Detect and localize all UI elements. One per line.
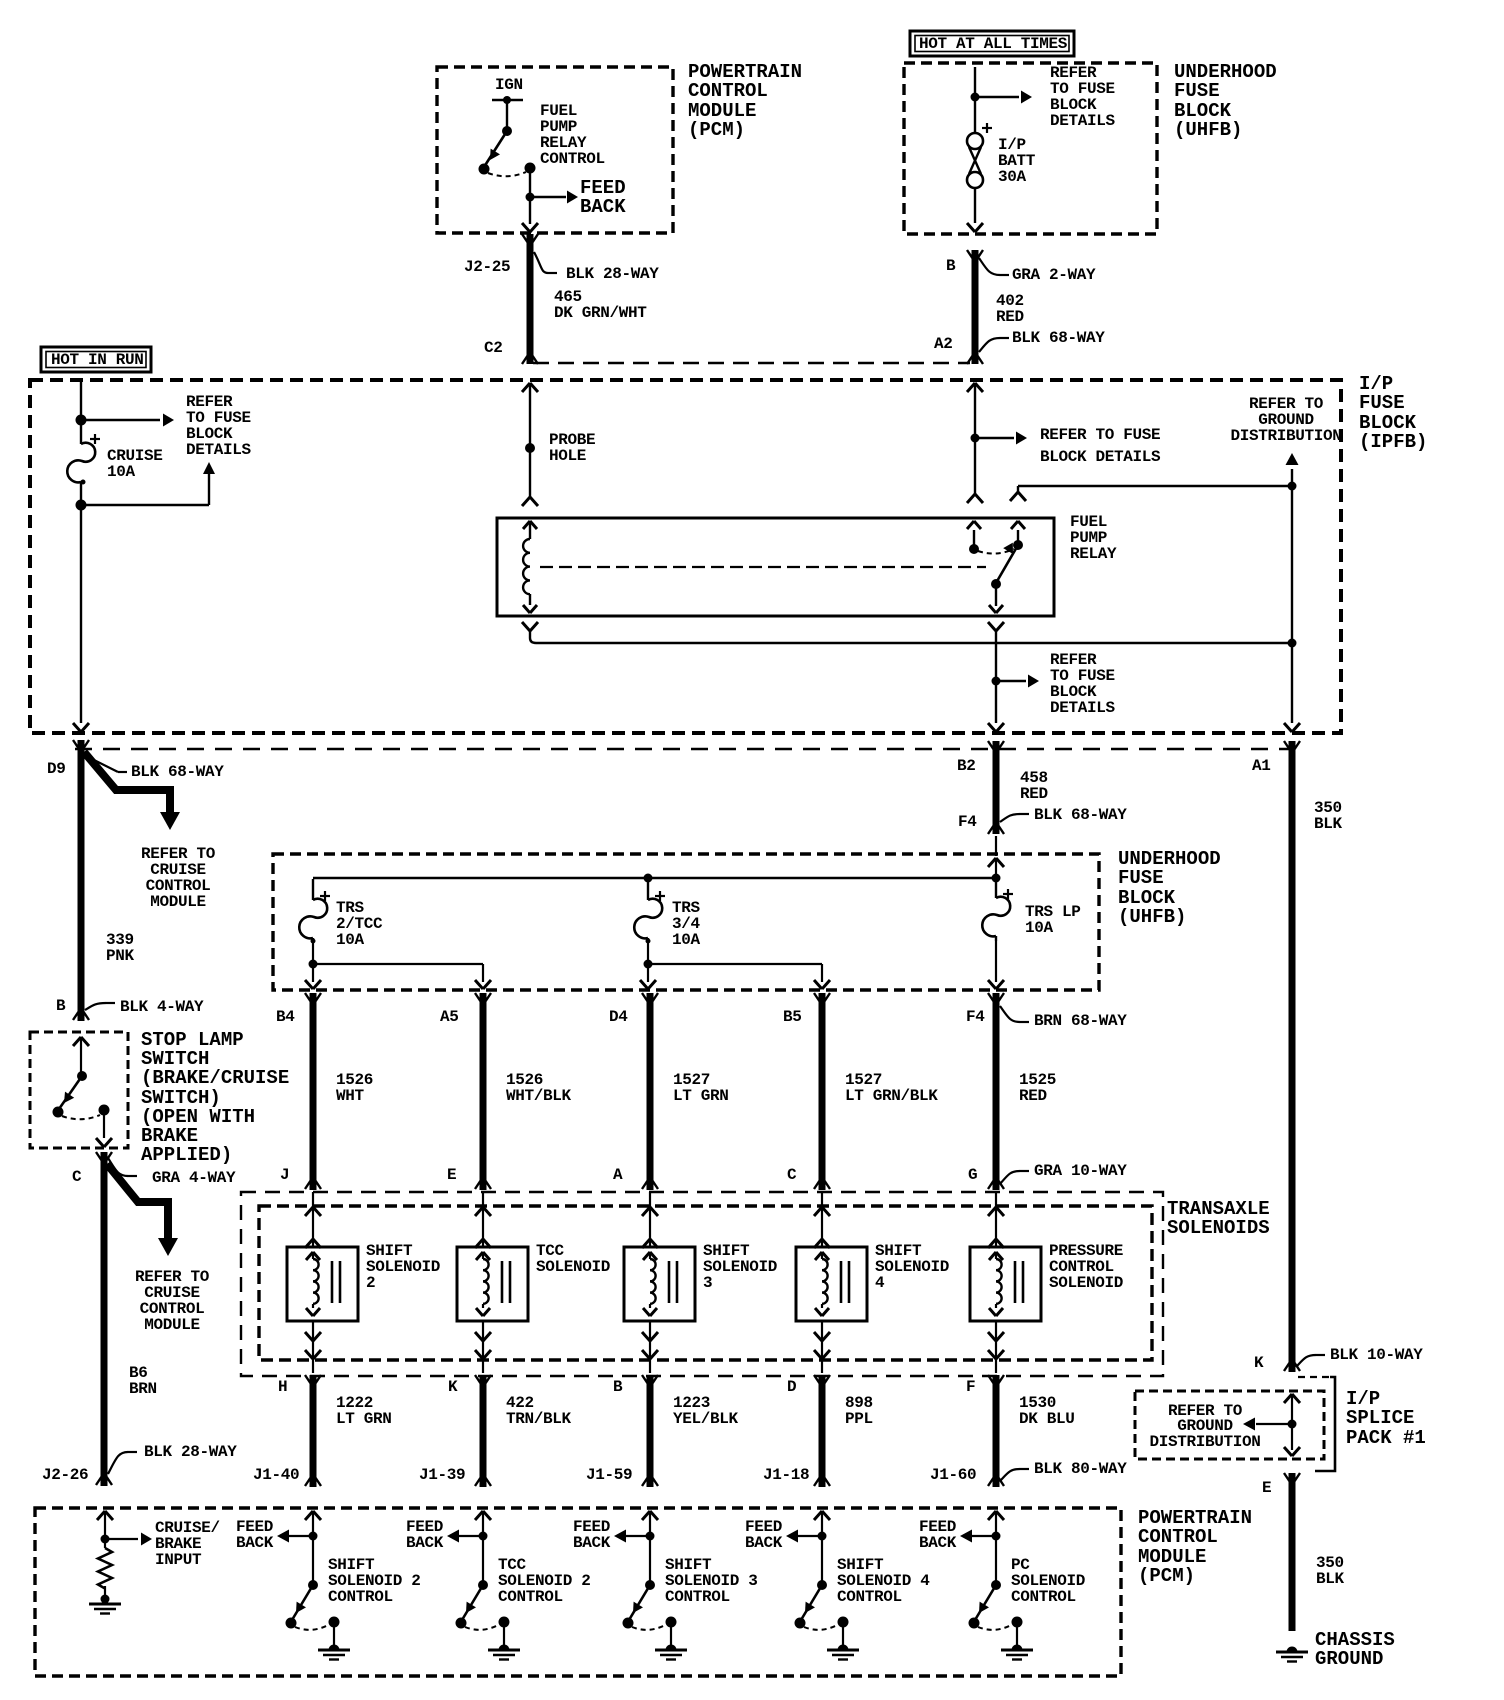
svg-text:BACK: BACK (573, 1534, 611, 1552)
solenoid SHIFT SOLENOID 3 box (624, 1247, 695, 1321)
svg-text:GROUND: GROUND (1315, 1648, 1383, 1670)
pin label J1-39 (419, 1466, 465, 1484)
stop lamp switch (53, 1071, 110, 1119)
svg-text:IGN: IGN (495, 76, 523, 94)
node IGN terminal bar (492, 96, 523, 104)
pin label F4 (UHFB) (958, 813, 977, 831)
relay coil lead arrow (523, 521, 537, 539)
solenoid SHIFT SOLENOID 3 leads out (642, 1321, 658, 1373)
ground (cruise/brake input) (89, 1586, 121, 1614)
svg-text:J1-60: J1-60 (930, 1466, 976, 1484)
svg-text:BLK 28-WAY: BLK 28-WAY (566, 265, 659, 283)
ground (SHIFT SOLENOID 2) (318, 1627, 350, 1660)
svg-text:INPUT: INPUT (155, 1551, 202, 1569)
node TRS 2/TCC output (309, 941, 318, 969)
label STOP LAMP SWITCH (141, 1029, 289, 1166)
svg-text:J1-40: J1-40 (253, 1466, 299, 1484)
svg-text:BLK 68-WAY: BLK 68-WAY (1012, 329, 1105, 347)
module box: I/P Fuse Block (IPFB) (30, 380, 1341, 733)
relay contact input lead (1011, 521, 1025, 545)
wire TRS 2/TCC to B4 (305, 964, 321, 989)
solenoid TCC SOLENOID leads out (475, 1321, 491, 1373)
relay switch throw node (978, 540, 1023, 554)
label SHIFT SOLENOID 2 CONTROL (328, 1556, 421, 1606)
svg-text:WHT/BLK: WHT/BLK (506, 1087, 572, 1105)
splice pack bracket (1315, 1377, 1335, 1471)
wire label 1526 WHT (336, 1071, 373, 1105)
node A2 branch junction (971, 434, 980, 443)
svg-text:MODULE: MODULE (150, 893, 206, 911)
module box: Powertrain Control Module (PCM) bottom (35, 1508, 1121, 1676)
svg-text:J1-59: J1-59 (586, 1466, 632, 1484)
label FEED BACK (SHIFT SOLENOID 4) (745, 1518, 783, 1552)
svg-text:(UHFB): (UHFB) (1118, 906, 1186, 928)
wire 1525 RED (row1) (988, 993, 1004, 1190)
label PRESSURE CONTROL SOLENOID (1049, 1242, 1123, 1292)
pin label J (solenoid) (280, 1166, 289, 1184)
svg-text:(IPFB): (IPFB) (1359, 431, 1427, 453)
pin label B (stop lamp) (56, 997, 66, 1015)
svg-text:LT GRN/BLK: LT GRN/BLK (845, 1087, 938, 1105)
splice wire (1284, 1377, 1330, 1456)
svg-text:GRA 4-WAY: GRA 4-WAY (152, 1169, 236, 1187)
wire 898 PPL (row2) (814, 1375, 830, 1487)
label SHIFT SOLENOID 4 CONTROL (837, 1556, 930, 1606)
node bus TRS LP (992, 874, 1001, 883)
wire 350 BLK (A1 to K) (1284, 741, 1300, 1372)
svg-text:GRA 2-WAY: GRA 2-WAY (1012, 266, 1096, 284)
wire label 422 TRN/BLK (506, 1394, 572, 1428)
svg-text:A2: A2 (934, 335, 953, 353)
label REFER TO CRUISE CONTROL MODULE (lower) (135, 1268, 210, 1334)
solenoid SHIFT SOLENOID 3 leads in (642, 1192, 658, 1248)
solenoid SHIFT SOLENOID 2 leads in (305, 1192, 321, 1248)
wire 458 RED (B2 to F4) (988, 741, 1004, 834)
circuit breaker I/P BATT 30A (967, 123, 992, 188)
connector label BLK 4-WAY (85, 998, 204, 1016)
node bus TRS 3/4 (644, 874, 653, 883)
svg-text:APPLIED): APPLIED) (141, 1144, 232, 1166)
solenoid SHIFT SOLENOID 2 core bars (332, 1261, 340, 1303)
label FEED BACK (SHIFT SOLENOID 2) (236, 1518, 274, 1552)
solenoid SHIFT SOLENOID 3 core bars (669, 1261, 677, 1303)
relay internal dashed link (540, 566, 986, 568)
svg-text:B: B (56, 997, 66, 1015)
wire battery feed into fuse (974, 67, 976, 133)
svg-text:BRN 68-WAY: BRN 68-WAY (1034, 1012, 1127, 1030)
svg-text:(UHFB): (UHFB) (1174, 119, 1242, 141)
wire label 898 PPL (845, 1394, 873, 1428)
svg-text:B5: B5 (783, 1008, 802, 1026)
svg-text:RED: RED (1019, 1087, 1047, 1105)
node feedback junction (526, 193, 535, 202)
svg-text:HOT AT ALL TIMES: HOT AT ALL TIMES (919, 35, 1068, 53)
svg-text:CONTROL: CONTROL (1011, 1588, 1076, 1606)
svg-text:BLK 80-WAY: BLK 80-WAY (1034, 1460, 1127, 1478)
pin label B5 (783, 1008, 802, 1026)
svg-text:MODULE: MODULE (144, 1316, 200, 1334)
switch TCC SOLENOID 2 control (456, 1580, 489, 1629)
arrow refer to fuse block details (below relay) (996, 675, 1039, 688)
wire label 350 BLK (upper) (1314, 799, 1343, 833)
label PC SOLENOID CONTROL (1011, 1556, 1085, 1606)
wire TRS LP to F4 (988, 941, 1004, 989)
svg-text:LT GRN: LT GRN (673, 1087, 729, 1105)
pin label A2 (934, 335, 953, 353)
svg-text:G: G (968, 1166, 977, 1184)
chassis ground symbol (1276, 1647, 1308, 1662)
svg-text:10A: 10A (1025, 919, 1054, 937)
wire 1222 LT GRN (row2) (305, 1375, 321, 1487)
svg-text:10A: 10A (672, 931, 701, 949)
fuse CRUISE 10A (67, 421, 100, 505)
switch SHIFT SOLENOID 2 control (286, 1580, 319, 1629)
svg-text:PPL: PPL (845, 1410, 873, 1428)
driver lead in (SHIFT SOLENOID 3) (642, 1511, 658, 1585)
svg-text:CONTROL: CONTROL (837, 1588, 902, 1606)
label REFER TO CRUISE CONTROL MODULE (upper) (141, 845, 216, 911)
svg-text:30A: 30A (998, 168, 1027, 186)
label CHASSIS GROUND (1315, 1629, 1395, 1670)
component boundary: transaxle solenoids outer (241, 1192, 1163, 1376)
node feedback (TCC SOLENOID 2) (479, 1532, 488, 1541)
svg-text:BLK 68-WAY: BLK 68-WAY (1034, 806, 1127, 824)
wire label 465 DK GRN/WHT (554, 288, 647, 322)
pin label E (1262, 1479, 1271, 1497)
pin label J2-26 (42, 1466, 88, 1484)
wire relay output to B2 (988, 681, 1004, 732)
svg-text:DETAILS: DETAILS (1050, 112, 1116, 130)
svg-text:B: B (613, 1378, 623, 1396)
pin label B (row2) (613, 1378, 623, 1396)
node TRS 3/4 output (644, 941, 653, 969)
wire relay input riser (1010, 486, 1292, 501)
svg-text:C2: C2 (484, 339, 503, 357)
branch to cruise control module (C) (107, 1164, 178, 1256)
ground (SHIFT SOLENOID 3) (655, 1627, 687, 1660)
svg-text:PNK: PNK (106, 947, 135, 965)
svg-text:WHT: WHT (336, 1087, 365, 1105)
wire breaker to pin B (967, 188, 983, 232)
svg-text:SOLENOID: SOLENOID (1049, 1274, 1123, 1292)
pin label F (row2) (966, 1378, 975, 1396)
svg-text:(PCM): (PCM) (688, 119, 745, 141)
arrow FEED BACK (SHIFT SOLENOID 3) (614, 1530, 650, 1543)
svg-text:B: B (946, 257, 956, 275)
pin label J1-60 (930, 1466, 976, 1484)
label PROBE HOLE (549, 431, 595, 465)
pin label K (1254, 1354, 1264, 1372)
svg-text:DISTRIBUTION: DISTRIBUTION (1149, 1433, 1260, 1451)
connector chevron above relay (coil lead) (522, 497, 538, 506)
wire IGN to switch (506, 100, 508, 131)
node fuse feed junction (971, 93, 980, 102)
solenoid PRESSURE CONTROL SOLENOID box (970, 1247, 1041, 1321)
svg-text:DK GRN/WHT: DK GRN/WHT (554, 304, 647, 322)
arrow FEED BACK (SHIFT SOLENOID 2) (277, 1530, 313, 1543)
wire label 339 PNK (106, 931, 135, 965)
module box: Powertrain Control Module (PCM) top (437, 67, 673, 233)
connector label BLK 68-WAY (F4) (1000, 806, 1127, 824)
wire 339 PNK (D9 to B) (73, 740, 89, 1021)
solenoid PRESSURE CONTROL SOLENOID leads out (988, 1321, 1004, 1373)
driver lead in (SHIFT SOLENOID 2) (305, 1511, 321, 1585)
solenoid TCC SOLENOID box (457, 1247, 528, 1321)
svg-text:DK BLU: DK BLU (1019, 1410, 1075, 1428)
pin label D9 (47, 760, 66, 778)
pin label J1-18 (763, 1466, 809, 1484)
connector label BLK 10-WAY (1296, 1346, 1423, 1367)
pin label B2 (957, 757, 976, 775)
pin label D (row2) (787, 1378, 796, 1396)
fuse TRS 2/TCC 10A (299, 879, 330, 944)
svg-text:J1-39: J1-39 (419, 1466, 465, 1484)
node cruise fuse junction (76, 415, 87, 426)
label I/P BATT 30A (998, 136, 1036, 186)
wire 350 BLK (E to ground) (1284, 1473, 1300, 1631)
fuse bus (313, 877, 996, 879)
wire cruise output down (73, 505, 89, 732)
svg-text:SOLENOID: SOLENOID (536, 1258, 610, 1276)
svg-text:CONTROL: CONTROL (540, 150, 605, 168)
stop lamp switch input (73, 1037, 89, 1072)
wire B6 BRN (C to J2-26) (96, 1152, 112, 1486)
label POWERTRAIN CONTROL MODULE (PCM) (688, 61, 802, 141)
switch PC SOLENOID control (969, 1580, 1002, 1629)
solenoid TCC SOLENOID coil (476, 1252, 490, 1316)
node relay contact fixed (969, 544, 979, 554)
svg-text:REFER TO FUSE: REFER TO FUSE (1040, 426, 1160, 444)
arrow to FEED BACK (530, 191, 578, 204)
svg-text:BLK 28-WAY: BLK 28-WAY (144, 1443, 237, 1461)
connector label BLK 80-WAY (1000, 1460, 1127, 1481)
switch throw (PC SOLENOID) (978, 1617, 1023, 1630)
solenoid SHIFT SOLENOID 3 coil (643, 1252, 657, 1316)
svg-text:10A: 10A (107, 463, 136, 481)
wire 1223 YEL/BLK (row2) (642, 1375, 658, 1487)
svg-text:LT GRN: LT GRN (336, 1410, 392, 1428)
branch to cruise control module (D9) (84, 752, 180, 830)
svg-text:HOT IN RUN: HOT IN RUN (51, 351, 144, 369)
label SHIFT SOLENOID 4 (875, 1242, 949, 1292)
node feedback (SHIFT SOLENOID 2) (309, 1532, 318, 1541)
wire 1530 DK BLU (row2) (988, 1375, 1004, 1487)
module box: transaxle solenoids (259, 1206, 1152, 1360)
connector label GRA 2-WAY (979, 258, 1096, 284)
svg-text:A1: A1 (1252, 757, 1271, 775)
node ground distribution junction (1288, 482, 1297, 491)
label TCC SOLENOID 2 CONTROL (498, 1556, 591, 1606)
connector chevron above relay feed (967, 494, 983, 503)
svg-text:BRN: BRN (129, 1380, 157, 1398)
svg-text:10A: 10A (336, 931, 365, 949)
driver lead in (TCC SOLENOID 2) (475, 1511, 491, 1585)
wire label 1527 LT GRN (673, 1071, 729, 1105)
switch SHIFT SOLENOID 4 control (795, 1580, 828, 1629)
driver lead in (PC SOLENOID) (988, 1511, 1004, 1585)
solenoid TCC SOLENOID core bars (502, 1261, 510, 1303)
solenoid SHIFT SOLENOID 4 core bars (841, 1261, 849, 1303)
wire label 1530 DK BLU (1019, 1394, 1075, 1428)
node refer-to-fuse junction (relay output) (992, 677, 1001, 686)
svg-text:BACK: BACK (236, 1534, 274, 1552)
connector label BLK 68-WAY (D9) (86, 756, 224, 781)
wire ground distribution bus (1284, 486, 1300, 732)
label REFER TO GROUND DISTRIBUTION (IPFB) (1230, 395, 1341, 445)
ground (SHIFT SOLENOID 4) (827, 1627, 859, 1660)
svg-text:C: C (787, 1166, 797, 1184)
svg-text:B4: B4 (276, 1008, 295, 1026)
svg-text:BLK: BLK (1314, 815, 1343, 833)
label SHIFT SOLENOID 2 (366, 1242, 440, 1292)
label REFER TO FUSE BLOCK DETAILS (below relay) (1050, 651, 1116, 717)
arrow FEED BACK (PC SOLENOID) (960, 1530, 996, 1543)
wire label 1527 LT GRN/BLK (845, 1071, 938, 1105)
arrow FEED BACK (TCC SOLENOID 2) (447, 1530, 483, 1543)
svg-text:BLK: BLK (1316, 1570, 1345, 1588)
svg-text:DETAILS: DETAILS (186, 441, 252, 459)
connector label GRA 4-WAY (108, 1158, 236, 1187)
svg-text:F4: F4 (966, 1008, 985, 1026)
svg-text:CONTROL: CONTROL (498, 1588, 563, 1606)
svg-text:BACK: BACK (580, 196, 626, 218)
module box: I/P Splice Pack #1 (1135, 1391, 1324, 1459)
pin label A5 (440, 1008, 459, 1026)
label CRUISE/BRAKE INPUT (155, 1519, 220, 1569)
module box: Underhood Fuse Block top (904, 63, 1157, 234)
wire label 1223 YEL/BLK (673, 1394, 739, 1428)
svg-text:FUSE: FUSE (1359, 392, 1405, 414)
resistor cruise/brake input (98, 1548, 112, 1589)
wire 1527 LT GRN (row1) (642, 993, 658, 1190)
label TRANSAXLE SOLENOIDS (1167, 1198, 1270, 1239)
wire label 1525 RED (1019, 1071, 1056, 1105)
svg-text:J1-18: J1-18 (763, 1466, 809, 1484)
pin label B (UHFB) (946, 257, 956, 275)
fuse TRS LP 10A (982, 879, 1013, 941)
label UNDERHOOD FUSE BLOCK (UHFB) middle (1118, 848, 1221, 928)
connector chevron below relay output (988, 622, 1004, 681)
pin label A (solenoid) (613, 1166, 623, 1184)
connector label BLK 68-WAY (A2) (979, 329, 1105, 352)
solenoid SHIFT SOLENOID 2 leads out (305, 1321, 321, 1373)
label FUEL PUMP RELAY (1070, 513, 1117, 563)
module box: Stop Lamp Switch (30, 1032, 128, 1148)
wire 422 TRN/BLK (row2) (475, 1375, 491, 1487)
svg-text:FUSE: FUSE (1118, 867, 1164, 889)
pin label E (solenoid) (447, 1166, 456, 1184)
pin label J2-25 (464, 258, 510, 276)
label FUEL PUMP RELAY CONTROL (540, 102, 605, 168)
label REFER TO FUSE BLOCK DETAILS (UHFB) (1050, 64, 1116, 130)
svg-text:A: A (613, 1166, 623, 1184)
svg-text:HOLE: HOLE (549, 447, 586, 465)
label FEED BACK (580, 177, 626, 218)
svg-text:CONTROL: CONTROL (665, 1588, 730, 1606)
coil fuel pump relay (523, 539, 530, 594)
pin label D4 (609, 1008, 628, 1026)
node splice (1288, 1420, 1297, 1429)
svg-text:CONTROL: CONTROL (688, 80, 768, 102)
svg-text:(BRAKE/CRUISE: (BRAKE/CRUISE (141, 1067, 289, 1089)
node feedback (PC SOLENOID) (992, 1532, 1001, 1541)
svg-text:SOLENOID: SOLENOID (703, 1258, 777, 1276)
switch throw node (488, 163, 536, 177)
wire to PCM J2-25 pin (522, 197, 538, 232)
arrow refer to fuse block details (A2) (975, 432, 1027, 445)
connector label BLK 28-WAY (top) (534, 252, 659, 283)
connector line 68-way (75, 748, 1295, 750)
wire label B6 BRN (129, 1364, 157, 1398)
switch throw (SHIFT SOLENOID 4) (804, 1617, 849, 1630)
svg-text:BACK: BACK (745, 1534, 783, 1552)
pin label A1 (1252, 757, 1271, 775)
svg-text:4: 4 (875, 1274, 885, 1292)
svg-text:RED: RED (996, 308, 1024, 326)
relay output lead (989, 584, 1003, 613)
svg-text:FUSE: FUSE (1174, 80, 1220, 102)
svg-text:BLK 68-WAY: BLK 68-WAY (131, 763, 224, 781)
switch throw (SHIFT SOLENOID 3) (632, 1617, 677, 1630)
svg-text:SOLENOIDS: SOLENOIDS (1167, 1217, 1270, 1239)
wire label 458 RED (1020, 769, 1048, 803)
wire TRS 3/4 to D4 (640, 964, 656, 989)
arrow FEED BACK (SHIFT SOLENOID 4) (786, 1530, 822, 1543)
stop lamp switch output (96, 1110, 112, 1147)
svg-text:RELAY: RELAY (1070, 545, 1117, 563)
wire relay coil to ground distribution (536, 642, 1292, 644)
svg-text:J2-26: J2-26 (42, 1466, 88, 1484)
svg-text:BLK 10-WAY: BLK 10-WAY (1330, 1346, 1423, 1364)
solenoid SHIFT SOLENOID 2 coil (306, 1252, 320, 1316)
wire C2 into IPFB (522, 383, 538, 497)
pin label J1-59 (586, 1466, 632, 1484)
svg-text:K: K (448, 1378, 458, 1396)
solenoid SHIFT SOLENOID 4 leads in (814, 1192, 830, 1248)
arrow REFER TO GROUND DISTRIBUTION (IPFB) (1286, 453, 1299, 486)
svg-text:YEL/BLK: YEL/BLK (673, 1410, 739, 1428)
switch throw (TCC SOLENOID 2) (465, 1617, 510, 1630)
svg-text:CONTROL: CONTROL (328, 1588, 393, 1606)
label REFER TO FUSE BLOCK DETAILS (A2) (1040, 426, 1161, 466)
svg-text:J: J (280, 1166, 289, 1184)
svg-text:D4: D4 (609, 1008, 628, 1026)
wire label 402 RED (996, 292, 1024, 326)
svg-text:D9: D9 (47, 760, 66, 778)
label FEED BACK (TCC SOLENOID 2) (406, 1518, 444, 1552)
svg-text:SOLENOID: SOLENOID (366, 1258, 440, 1276)
connector label BRN 68-WAY (1000, 1006, 1127, 1030)
label FEED BACK (PC SOLENOID) (919, 1518, 957, 1552)
wire fuse output branch right (81, 462, 215, 505)
ground (PC SOLENOID) (1001, 1627, 1033, 1660)
arrow CRUISE/BRAKE INPUT (105, 1533, 152, 1546)
svg-text:RED: RED (1020, 785, 1048, 803)
wire TRS 3/4 to B5 (648, 964, 830, 989)
label POWERTRAIN CONTROL MODULE (PCM) bottom (1138, 1507, 1252, 1587)
label SHIFT SOLENOID 3 (703, 1242, 777, 1292)
wire label 350 BLK (lower) (1316, 1554, 1345, 1588)
node cruise/brake junction (101, 1535, 110, 1544)
solenoid PRESSURE CONTROL SOLENOID coil (989, 1252, 1003, 1316)
label CRUISE 10A (107, 447, 163, 481)
svg-text:BACK: BACK (919, 1534, 957, 1552)
node feedback (SHIFT SOLENOID 4) (818, 1532, 827, 1541)
connector chevron below relay left (522, 622, 538, 643)
label REFER TO FUSE BLOCK DETAILS (IPFB left) (186, 393, 252, 459)
ground (TCC SOLENOID 2) (488, 1627, 520, 1660)
connector label BLK 28-WAY (bottom) (108, 1443, 237, 1474)
